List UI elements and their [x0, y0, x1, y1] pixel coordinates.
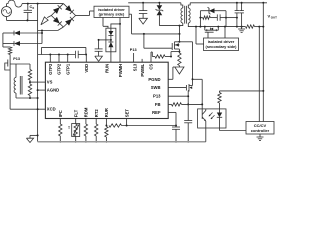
svg-text:IPC: IPC — [58, 110, 63, 117]
svg-text:P13: P13 — [153, 94, 161, 99]
svg-text:SWB: SWB — [151, 85, 161, 90]
svg-text:FLT: FLT — [73, 109, 78, 117]
svg-text:RDM: RDM — [84, 107, 89, 117]
svg-text:CS: CS — [149, 64, 154, 70]
svg-text:P13: P13 — [13, 57, 20, 61]
svg-text:X: X — [32, 6, 34, 10]
svg-text:REF: REF — [152, 110, 161, 115]
svg-text:(primary side): (primary side) — [99, 12, 125, 17]
svg-text:T: T — [68, 126, 71, 130]
svg-text:PWMH: PWMH — [118, 64, 123, 77]
svg-text:S13: S13 — [133, 63, 138, 71]
svg-text:SET: SET — [124, 109, 129, 118]
svg-text:AGND: AGND — [47, 88, 59, 93]
svg-text:XCD: XCD — [47, 107, 56, 112]
svg-text:P13: P13 — [130, 48, 137, 52]
svg-text:GTP1: GTP1 — [65, 63, 70, 75]
svg-text:RT2: RT2 — [94, 109, 99, 118]
svg-text:RUR: RUR — [104, 108, 109, 117]
svg-text:(secondary side): (secondary side) — [206, 44, 238, 49]
svg-text:VDD: VDD — [84, 64, 89, 73]
svg-text:GTP2: GTP2 — [57, 63, 62, 75]
svg-text:controller: controller — [251, 128, 270, 133]
svg-text:PWML: PWML — [140, 63, 145, 76]
svg-text:PGND: PGND — [148, 77, 160, 82]
svg-text:FB: FB — [155, 102, 161, 107]
svg-text:OUT: OUT — [271, 16, 277, 20]
svg-text:RUN: RUN — [104, 64, 109, 73]
svg-text:GTP3: GTP3 — [48, 63, 53, 75]
svg-text:VS: VS — [47, 80, 53, 85]
